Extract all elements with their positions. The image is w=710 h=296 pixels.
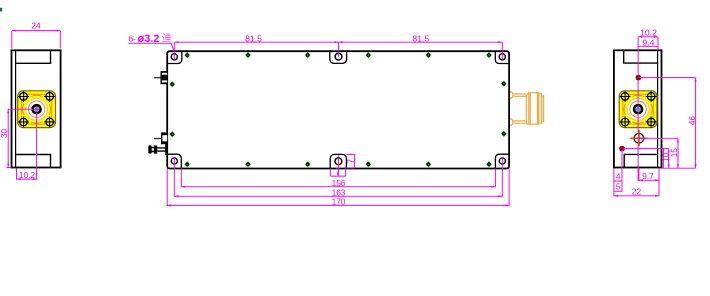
main body outline xyxy=(167,51,509,168)
connector barrel xyxy=(529,93,539,125)
bottom-right mounting tab xyxy=(495,154,509,168)
screw hole top 3 xyxy=(305,52,311,58)
svg-text:30: 30 xyxy=(0,129,9,139)
crosshair hole (below flange) xyxy=(630,130,678,146)
connector bottom neck xyxy=(513,121,526,123)
dimension 9.7 xyxy=(639,168,659,181)
right view center line xyxy=(637,37,639,181)
screw hole bottom 3 xyxy=(305,161,311,167)
dimension 46 xyxy=(638,78,696,169)
SMA connector C (lower-left) xyxy=(148,144,167,156)
svg-text:10: 10 xyxy=(661,152,671,162)
alignment pin marker (lower-left) xyxy=(619,146,669,192)
top-right mounting tab xyxy=(495,51,509,63)
left view RF connector flange xyxy=(18,91,56,128)
dimension 81.5 right segment xyxy=(339,33,503,43)
alignment pin marker (top) xyxy=(636,75,642,81)
screw hole top 6 xyxy=(486,52,492,58)
connector end rings xyxy=(539,94,542,124)
right view body outline xyxy=(614,50,662,167)
svg-text:170: 170 xyxy=(332,197,346,207)
dimension 30 xyxy=(0,109,12,167)
dimension 10 (boxed, rotated) xyxy=(661,149,671,169)
sheet corner mark xyxy=(0,8,2,12)
connector top lug xyxy=(510,92,513,99)
connector bottom lug xyxy=(510,119,513,126)
svg-text:9.4: 9.4 xyxy=(643,37,655,47)
mounting hole top-right xyxy=(499,54,505,60)
svg-text:9.7: 9.7 xyxy=(642,171,654,181)
dimension 24 xyxy=(12,21,61,49)
bottom-middle mounting tab xyxy=(330,154,346,168)
svg-text:22: 22 xyxy=(632,186,642,196)
connector top neck xyxy=(513,94,526,96)
svg-text:5: 5 xyxy=(616,182,621,192)
screw hole top 5 xyxy=(426,52,432,58)
feed-through connector B (mid-left) xyxy=(154,132,167,144)
dimension 81.5 left segment xyxy=(174,33,502,59)
svg-text:10.2: 10.2 xyxy=(19,170,36,180)
right view bottom recess step xyxy=(624,154,657,167)
mounting hole bottom-left xyxy=(171,158,177,164)
mounting hole top-left xyxy=(171,54,177,60)
screw hole bottom 1 xyxy=(184,161,190,167)
mounting hole bottom-right xyxy=(499,158,505,164)
svg-text:156: 156 xyxy=(332,178,346,188)
dimension 7 (tab width, boxed) xyxy=(330,155,345,177)
screw hole right 2 xyxy=(501,131,507,137)
svg-text:46: 46 xyxy=(687,116,697,126)
dimension 7 (tab height, boxed, rotated) xyxy=(346,154,356,168)
svg-text:7: 7 xyxy=(346,159,356,164)
dimension 5 (boxed) xyxy=(614,182,622,192)
dimension 15 xyxy=(669,138,679,168)
connector flare xyxy=(526,93,529,125)
right view inner wall line xyxy=(657,50,659,167)
screw hole right 1 xyxy=(501,81,507,87)
mounting hole top-middle xyxy=(335,53,342,60)
dimension 163 xyxy=(174,157,502,198)
svg-text:24: 24 xyxy=(31,21,41,31)
dimension 4 (boxed) xyxy=(614,168,622,196)
left view top recess step xyxy=(16,50,51,63)
bottom-left mounting tab xyxy=(167,154,181,168)
screw hole bottom 5 xyxy=(426,161,432,167)
screw hole left 2 xyxy=(169,131,175,137)
screw hole top 4 xyxy=(366,52,372,58)
screw hole bottom 6 xyxy=(486,161,492,167)
right view top recess step xyxy=(624,50,658,63)
dimension 170 xyxy=(167,169,509,207)
svg-text:4: 4 xyxy=(616,171,621,181)
left view inner wall line xyxy=(15,50,17,167)
dimension 10.2 (right view) xyxy=(638,28,658,50)
svg-text:10.2: 10.2 xyxy=(640,28,657,38)
right view RF connector flange xyxy=(619,91,657,128)
screw hole left 1 xyxy=(169,81,175,87)
svg-text:81.5: 81.5 xyxy=(245,33,262,43)
dimension 10.2 xyxy=(17,168,38,180)
left view body outline xyxy=(12,50,61,167)
left view center lines (magenta) xyxy=(8,108,39,180)
screw hole top 1 xyxy=(184,52,190,58)
RF output connector (orange, right side) xyxy=(510,92,544,126)
dimension 22 xyxy=(614,168,659,197)
feed-through connector A (upper-left) xyxy=(154,71,167,84)
screw hole bottom 4 xyxy=(366,161,372,167)
dimension 156 xyxy=(181,169,495,188)
dimension 9.4 (boxed) xyxy=(638,37,658,47)
screw hole bottom 2 xyxy=(245,161,251,167)
svg-text:6-: 6- xyxy=(129,34,137,44)
svg-text:15: 15 xyxy=(669,148,679,158)
screw hole top 2 xyxy=(245,52,251,58)
svg-text:81.5: 81.5 xyxy=(412,33,429,43)
top-left mounting tab xyxy=(167,51,182,63)
left view bottom recess step xyxy=(16,155,51,168)
top-middle mounting tab xyxy=(330,51,347,63)
svg-text:7: 7 xyxy=(335,167,340,177)
mounting hole bottom-middle xyxy=(335,158,342,165)
label 6-3.2 through holes xyxy=(129,33,175,61)
